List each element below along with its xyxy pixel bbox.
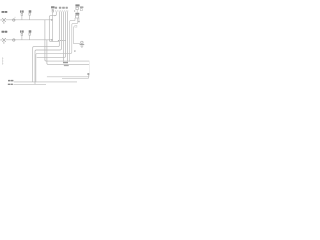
fuse F1 body bbox=[21, 13, 23, 15]
bottom bus label 2 bbox=[8, 84, 13, 85]
connector circle X2 row2 bbox=[13, 39, 15, 41]
fuse F1 label bbox=[20, 10, 24, 12]
fuse F3 stub bbox=[21, 35, 23, 40]
terminal comb teeth bbox=[55, 10, 68, 11]
long wire right y64.4 bbox=[47, 63, 89, 64]
terminal labels bbox=[55, 7, 68, 9]
small element inside loop bbox=[75, 26, 77, 28]
long wire right y61 bbox=[45, 60, 89, 61]
bottom bus wire 1 bbox=[14, 81, 77, 83]
fuse F3 body bbox=[21, 33, 23, 35]
label near corner bbox=[78, 21, 80, 23]
mid connector bar2 bbox=[64, 65, 69, 66]
bump symbol above ground bbox=[81, 41, 83, 43]
wire row1 main bbox=[6, 19, 53, 21]
fuse F1 stub bbox=[21, 15, 23, 19]
fuse F2 stub bbox=[29, 15, 31, 20]
tick above circle row1 bbox=[14, 16, 15, 18]
relay R1 body bbox=[76, 7, 78, 9]
ground G1 bbox=[80, 45, 85, 48]
fuse F2 body bbox=[29, 13, 31, 15]
fuse F3 label bbox=[20, 30, 24, 32]
vertical from row2 junction bbox=[46, 40, 48, 64]
connector circle X1 row1 bbox=[13, 19, 15, 21]
relay R1b body bbox=[80, 9, 82, 11]
bottom bus label 1 bbox=[8, 80, 13, 82]
pin3 wire S2 bbox=[35, 12, 61, 85]
right wire label tick bbox=[87, 73, 89, 74]
pin5 wire S4 bbox=[37, 12, 66, 58]
relay R1 label bbox=[75, 4, 79, 6]
vertical from row1 junction bbox=[44, 20, 46, 60]
bottom bus wire 2 bbox=[13, 83, 46, 85]
wire C to ground bbox=[73, 18, 83, 44]
horn H1 bbox=[0, 18, 6, 24]
connector arrow pin1 bbox=[54, 15, 56, 16]
component U1 label bbox=[51, 6, 55, 8]
pin6 wire to bar bbox=[67, 12, 69, 62]
wire number ticks y40.5 bbox=[58, 40, 66, 42]
component U1 body bbox=[52, 10, 54, 13]
U1 drop wire bbox=[52, 12, 54, 41]
R1b label bbox=[80, 6, 83, 8]
R1 left tick bbox=[74, 10, 75, 11]
pin2 wire S1 bbox=[33, 12, 60, 83]
label tick right mid bbox=[74, 50, 76, 51]
R2 wire B to staircase S3 bbox=[36, 18, 77, 82]
bottom right wire pair bbox=[47, 76, 89, 78]
R1-R2 link bbox=[76, 10, 78, 13]
relay R2 label bbox=[75, 13, 79, 15]
arrow end row1 bbox=[51, 19, 53, 21]
pin4 wire to bar bbox=[62, 12, 64, 62]
fuse F4 stub bbox=[29, 35, 31, 40]
horn H2 bbox=[0, 38, 6, 44]
right vertical faint bbox=[88, 61, 90, 77]
wire row2 main bbox=[6, 39, 53, 41]
fuse F4 label bbox=[29, 30, 32, 32]
right vertical drop lower bbox=[88, 73, 90, 78]
label H2 bbox=[2, 31, 8, 33]
arrow end row2 bbox=[51, 39, 53, 41]
fuse F2 label bbox=[29, 10, 32, 12]
pin1 wire to left loop bbox=[49, 12, 59, 42]
fuse F4 body bbox=[29, 33, 31, 35]
relay R2 body bbox=[76, 15, 79, 18]
mid connector bar1 bbox=[63, 62, 68, 63]
left plug connector bbox=[2, 57, 3, 65]
R2 wire A to bar bbox=[70, 18, 75, 62]
label H1 bbox=[2, 11, 8, 13]
